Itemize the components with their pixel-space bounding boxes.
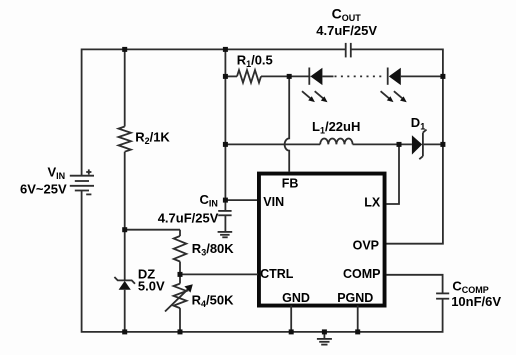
wire COMP pin to C_COMP bbox=[386, 275, 442, 294]
wire LX pin to L1/D1 node bbox=[386, 144, 399, 204]
wire top rail right segment bbox=[352, 49, 443, 243]
LED1 light arrows bbox=[302, 91, 328, 102]
LED2 light arrows bbox=[381, 91, 407, 102]
svg-text:R4/50K: R4/50K bbox=[192, 292, 234, 309]
wire VIN node horizontal to L1 bbox=[225, 143, 320, 145]
wire PGND pin bbox=[357, 306, 359, 332]
LED LED2 bbox=[388, 68, 443, 86]
wire GND pin bbox=[290, 306, 292, 332]
capacitor C_OUT bbox=[346, 43, 351, 58]
svg-text:R1/0.5: R1/0.5 bbox=[237, 52, 273, 69]
wire dotted between LEDs bbox=[335, 75, 386, 77]
svg-text:5.0V: 5.0V bbox=[138, 279, 165, 294]
svg-text:VIN: VIN bbox=[263, 195, 284, 209]
resistor R1 bbox=[225, 49, 289, 200]
svg-text:CTRL: CTRL bbox=[260, 267, 294, 281]
variable resistor R4 bbox=[165, 274, 193, 332]
svg-text:GND: GND bbox=[282, 291, 310, 305]
svg-text:6V~25V: 6V~25V bbox=[20, 181, 67, 196]
junction node dots bbox=[122, 47, 445, 335]
svg-text:PGND: PGND bbox=[337, 291, 373, 305]
resistor R3 bbox=[174, 230, 187, 275]
wire left rail down from battery to bottom rail bbox=[82, 191, 444, 332]
LED LED1 bbox=[289, 68, 333, 86]
zener diode DZ bbox=[114, 230, 135, 332]
wire R2/DZ junction to R3 bbox=[125, 229, 180, 231]
wire top rail left segment bbox=[82, 49, 345, 175]
svg-text:COMP: COMP bbox=[343, 267, 381, 281]
capacitor C_IN bbox=[218, 200, 231, 231]
IC U1 box bbox=[259, 174, 385, 306]
ground symbol on bottom rail bbox=[317, 332, 332, 345]
wire VIN pin bbox=[225, 199, 258, 201]
svg-text:4.7uF/25V: 4.7uF/25V bbox=[158, 210, 219, 225]
wire FB branch with hop over L1 wire bbox=[285, 76, 290, 171]
svg-text:OVP: OVP bbox=[353, 238, 379, 252]
svg-text:10nF/6V: 10nF/6V bbox=[451, 294, 501, 309]
ground under C_IN bbox=[218, 232, 233, 237]
wire CTRL pin bbox=[180, 273, 258, 275]
battery VIN bbox=[70, 169, 94, 194]
inductor L1 bbox=[320, 138, 352, 144]
svg-text:FB: FB bbox=[282, 176, 299, 190]
svg-text:R2/1K: R2/1K bbox=[135, 130, 170, 147]
svg-text:R3/80K: R3/80K bbox=[192, 241, 234, 258]
wire L1 to D1 bbox=[353, 143, 412, 145]
svg-text:4.7uF/25V: 4.7uF/25V bbox=[316, 23, 377, 38]
svg-text:LX: LX bbox=[364, 195, 381, 209]
diode D1 bbox=[412, 130, 443, 160]
resistor R2 bbox=[118, 49, 130, 229]
svg-text:L1/22uH: L1/22uH bbox=[312, 119, 360, 136]
capacitor C_COMP bbox=[436, 293, 449, 332]
